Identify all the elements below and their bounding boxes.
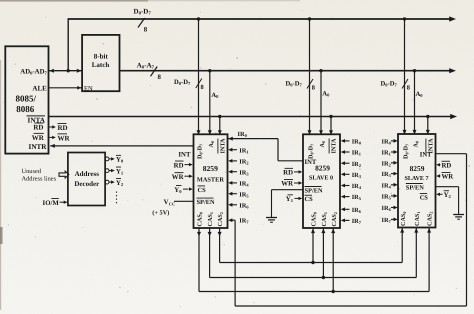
svg-text:A0: A0 — [319, 141, 326, 148]
svg-text:8259: 8259 — [315, 163, 330, 172]
svg-text:Address lines: Address lines — [22, 176, 57, 183]
scan noise overlay — [0, 0, 1, 1]
slave0 pin IR4 — [341, 184, 345, 188]
wire D bus riser — [67, 19, 69, 71]
svg-text:IR5: IR5 — [352, 194, 362, 201]
scan artifact top edge — [0, 0, 148, 2]
wire ALE to EN — [49, 87, 83, 89]
svg-text:IR0: IR0 — [352, 139, 362, 146]
slave7 pin IR3 — [394, 172, 398, 176]
svg-text:IR0: IR0 — [238, 131, 248, 138]
svg-text:8259: 8259 — [203, 164, 218, 173]
svg-text:Unused: Unused — [22, 168, 42, 175]
svg-text:IR6: IR6 — [381, 205, 391, 212]
svg-text:IR0: IR0 — [381, 139, 391, 146]
svg-text:IR4: IR4 — [352, 183, 362, 190]
svg-text:D0-D7: D0-D7 — [174, 79, 191, 86]
hollow bus arrow into decoder — [59, 171, 69, 178]
svg-text:IR4: IR4 — [239, 181, 249, 188]
bus D0-D7 top — [68, 18, 450, 20]
slave7 pin IR2 — [394, 161, 398, 165]
svg-text:IO/M: IO/M — [43, 200, 60, 207]
master pin IR6 — [228, 203, 232, 207]
slave0 pin IR3 — [341, 172, 345, 176]
svg-text:WR: WR — [442, 174, 454, 181]
svg-text:IR5: IR5 — [381, 194, 391, 201]
wire AD0-AD7 bus CPU to latch — [49, 70, 83, 72]
slave0 D0-D7 tap from D bus — [308, 17, 311, 20]
slave7 pin IR0 — [394, 139, 398, 143]
svg-text:IR5: IR5 — [239, 191, 249, 198]
svg-text:Decoder: Decoder — [74, 180, 99, 188]
svg-text:8-bit: 8-bit — [94, 53, 109, 61]
svg-text:8: 8 — [201, 84, 204, 91]
wire slave0 INT riser — [277, 139, 279, 161]
svg-text:CAS0: CAS0 — [197, 212, 204, 226]
svg-text:CAS1: CAS1 — [321, 212, 328, 226]
svg-text:Y1: Y1 — [286, 196, 294, 203]
svg-text:Y2: Y2 — [444, 192, 452, 199]
slave7 INT wire to rail — [436, 153, 467, 155]
svg-text:A0: A0 — [211, 92, 219, 99]
svg-text:CAS2: CAS2 — [217, 212, 224, 226]
svg-text:Address: Address — [75, 170, 100, 178]
svg-text:CAS2: CAS2 — [427, 212, 434, 226]
svg-text:IR6: IR6 — [352, 207, 362, 214]
svg-text:D0-D7: D0-D7 — [403, 144, 410, 159]
svg-text:IR1: IR1 — [352, 150, 361, 157]
slave0 SP/EN ground wire — [272, 189, 304, 191]
svg-text:A0: A0 — [208, 141, 215, 148]
svg-text:ALE: ALE — [32, 84, 47, 92]
master D0-D7 tap from D bus — [197, 17, 200, 20]
slave0 pin IR5 — [341, 195, 345, 199]
cascade rail CAS top — [220, 262, 403, 264]
ground slave7 SP/EN — [453, 214, 464, 216]
svg-text:INT: INT — [178, 151, 191, 158]
svg-text:Y0: Y0 — [174, 187, 182, 194]
slave0 pin IR0 — [341, 139, 345, 143]
arrow RD out — [50, 126, 54, 128]
svg-text:8086: 8086 — [16, 104, 35, 114]
svg-text:AD0-AD7: AD0-AD7 — [20, 69, 47, 76]
svg-text:RD: RD — [58, 124, 68, 132]
svg-text:INTA: INTA — [219, 138, 226, 154]
svg-text:IR7: IR7 — [352, 218, 362, 225]
decoder output Y0 — [105, 157, 109, 161]
slave7 pin IR5 — [394, 194, 398, 198]
svg-text:IR6: IR6 — [239, 202, 249, 209]
svg-text:SP/EN: SP/EN — [305, 187, 323, 194]
8259 slave0 box — [303, 134, 340, 228]
svg-text:IR7: IR7 — [239, 218, 249, 225]
master pin IR5 — [228, 192, 232, 196]
svg-text:A0: A0 — [322, 91, 330, 98]
slave0 A0 tap from A bus — [319, 69, 322, 72]
slave0 INTA tap from INTA line — [329, 115, 332, 118]
scan artifact left edge smudge — [0, 227, 3, 244]
master pin IR2 — [228, 159, 232, 163]
svg-text:WR: WR — [172, 174, 184, 181]
svg-text:RD: RD — [442, 163, 452, 170]
svg-text:8: 8 — [407, 85, 410, 92]
master INTA tap from INTA line — [218, 115, 221, 118]
svg-text:Y1: Y1 — [116, 168, 124, 175]
8-bit latch box — [82, 35, 119, 91]
slave0 pin IR2 — [341, 161, 345, 165]
svg-text:IR3: IR3 — [352, 172, 362, 179]
svg-text:IR2: IR2 — [381, 160, 390, 167]
svg-text:A0: A0 — [416, 91, 424, 98]
svg-text:INTR: INTR — [29, 143, 48, 151]
decoder outputs ellipsis dots — [116, 192, 118, 206]
svg-text:CS: CS — [305, 196, 314, 203]
svg-text:SLAVE 7: SLAVE 7 — [404, 175, 428, 182]
svg-text:Y2: Y2 — [116, 180, 124, 187]
cascade rail CAS bottom — [199, 291, 429, 293]
svg-text:D0-D7: D0-D7 — [308, 144, 315, 159]
8259 master box — [194, 134, 228, 228]
svg-text:CAS1: CAS1 — [414, 212, 421, 226]
slave7 pin IR7 — [394, 218, 398, 222]
svg-text:D0-D7: D0-D7 — [197, 144, 204, 159]
ground slave0 SP/EN — [266, 217, 277, 219]
slave7 pin IR1 — [394, 150, 398, 154]
slave7 SP/EN ground wire — [436, 186, 459, 188]
svg-text:MASTER: MASTER — [197, 177, 224, 184]
svg-text:A0: A0 — [413, 141, 420, 148]
svg-text:IR1: IR1 — [381, 150, 390, 157]
svg-text:CAS2: CAS2 — [331, 212, 338, 226]
cascade rail CAS middle — [210, 277, 417, 279]
slave0 pin IR1 — [341, 150, 345, 154]
svg-text:8085/: 8085/ — [16, 94, 37, 104]
master pin IR4 — [228, 181, 232, 185]
junction D bus tap on AD bus — [67, 69, 70, 72]
CPU 8085/8086 box — [5, 46, 48, 153]
slave7 pin IR6 — [394, 206, 398, 210]
svg-text:8: 8 — [158, 74, 162, 81]
slave7 D0-D7 tap from D bus — [403, 17, 406, 20]
bus slash 8 marker — [138, 18, 145, 28]
svg-text:RD: RD — [283, 170, 293, 177]
svg-text:IR1: IR1 — [239, 147, 248, 154]
svg-text:CS: CS — [198, 187, 207, 194]
slave7 pin IR4 — [394, 183, 398, 187]
bus A slash 8 marker — [151, 67, 158, 77]
slave7 INT bottom return rail — [235, 305, 466, 307]
svg-text:EN: EN — [84, 85, 93, 92]
svg-text:SP/EN: SP/EN — [197, 199, 215, 206]
master pin IR7 from slave7 INT — [228, 218, 232, 222]
svg-text:CS: CS — [420, 194, 429, 201]
svg-text:WR: WR — [32, 134, 45, 142]
bus A0-A7 from latch — [120, 70, 450, 72]
svg-text:INT: INT — [305, 159, 317, 166]
decoder output Y2 — [105, 180, 109, 184]
svg-text:Latch: Latch — [92, 61, 110, 69]
bus INTA line — [49, 116, 451, 118]
address decoder box — [68, 153, 105, 206]
svg-text:CAS1: CAS1 — [207, 212, 214, 226]
master pin IR1 — [228, 148, 232, 152]
svg-text:IR3: IR3 — [381, 171, 391, 178]
arrow WR out — [50, 136, 54, 138]
svg-text:Y0: Y0 — [116, 157, 124, 164]
junction slave0 CAS0 on rail — [311, 261, 314, 264]
wire slave7 INT return riser — [234, 220, 236, 306]
svg-text:CC: CC — [169, 202, 175, 207]
svg-text:IR3: IR3 — [239, 169, 249, 176]
master A0 tap from A bus — [208, 69, 211, 72]
svg-text:8: 8 — [312, 85, 315, 92]
master pin IR3 — [228, 170, 232, 174]
wire INTR net from master INT to CPU — [50, 145, 193, 147]
svg-text:SP/EN: SP/EN — [406, 184, 424, 191]
master IR0 net from slave0 INT — [228, 138, 279, 140]
junction slave0 CAS2 on rail — [332, 290, 335, 293]
svg-text:CAS0: CAS0 — [400, 212, 407, 226]
decoder output Y1 — [105, 169, 109, 173]
svg-text:RD: RD — [33, 124, 43, 132]
slave0 pin IR7 — [341, 219, 345, 223]
slave7 A0 tap from A bus — [413, 69, 416, 72]
svg-text:INTA: INTA — [331, 138, 338, 154]
scan artifact left edge line — [0, 60, 2, 310]
svg-text:D0-D7: D0-D7 — [381, 81, 398, 88]
svg-text:D0-D7: D0-D7 — [286, 81, 303, 88]
svg-text:IR4: IR4 — [381, 182, 391, 189]
svg-text:WR: WR — [58, 134, 71, 142]
slave7 INTA tap from INTA line — [426, 115, 429, 118]
svg-text:SLAVE 0: SLAVE 0 — [309, 175, 333, 182]
svg-text:RD: RD — [174, 162, 184, 169]
svg-text:IR2: IR2 — [239, 159, 248, 166]
svg-text:8259: 8259 — [410, 164, 425, 173]
svg-text:WR: WR — [281, 181, 293, 188]
svg-text:INT: INT — [420, 152, 432, 159]
svg-text:IR7: IR7 — [381, 217, 391, 224]
8259 slave7 box — [398, 134, 436, 228]
svg-text:8: 8 — [144, 27, 148, 34]
junction slave0 CAS1 on rail — [322, 276, 325, 279]
svg-text:(+ 5V): (+ 5V) — [152, 210, 169, 217]
svg-text:IR2: IR2 — [352, 161, 361, 168]
slave0 pin IR6 — [341, 207, 345, 211]
svg-text:CAS0: CAS0 — [311, 212, 318, 226]
arrow IO/M into decoder — [60, 201, 65, 203]
